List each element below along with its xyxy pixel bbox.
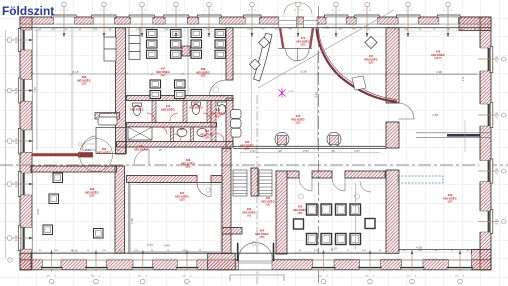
svg-text:7.45: 7.45: [33, 87, 37, 93]
conference chairs: [294, 204, 376, 245]
window bottom wall 312.8-334: [311, 254, 335, 270]
window top wall 130.6-152.8: [129, 15, 154, 28]
window bottom wall 359.7-380.4: [358, 254, 382, 270]
outer wall right: [480, 17, 491, 270]
svg-text:13: 13: [274, 27, 278, 31]
red stall door arcs: [147, 113, 224, 141]
left margin dim line: [4, 30, 7, 258]
wall V1 lower: [115, 166, 125, 253]
right marker y=171: [478, 169, 506, 175]
conference top wall c: [345, 171, 385, 178]
closet door arc: [82, 136, 96, 150]
toilet partition walls: [152, 101, 216, 142]
conference top wall b: [312, 171, 332, 178]
window bottom wall 42.4-61: [41, 254, 63, 270]
right rooms divider partition: [416, 133, 491, 138]
window top wall 53.3-74.6: [52, 15, 76, 28]
top marker x=104: [100, 2, 108, 37]
understair wall: [222, 228, 242, 235]
wc 1: [133, 103, 142, 116]
svg-text:1.98: 1.98: [130, 218, 134, 224]
interior dim lines: [32, 73, 478, 75]
top marker x=142: [138, 2, 146, 37]
svg-text:WC: WC: [180, 127, 185, 131]
room2 door arc: [197, 183, 211, 197]
office wardrobe: [129, 28, 140, 60]
office partition line: [187, 28, 189, 96]
column in circle left: [275, 132, 289, 146]
circled marker office door: [213, 87, 219, 93]
column in circle right: [327, 132, 341, 146]
hall edge seats: [231, 110, 242, 138]
H1 double-swing door circle: [80, 139, 113, 172]
conference inner chair lines: [308, 206, 358, 243]
diamond table hall right: [365, 36, 377, 48]
toilet block bottom wall: [117, 142, 234, 148]
right marker y=221.5: [478, 220, 506, 226]
top marker x=64: [60, 2, 68, 37]
conference door arcs: [299, 178, 312, 191]
top marker x=209: [205, 2, 213, 37]
right marker y=115: [478, 113, 506, 119]
conference top wall a: [287, 171, 299, 178]
exterior landing slab: [230, 275, 284, 281]
hall dim line x251: [251, 30, 253, 146]
hall diagonal sight line: [258, 10, 394, 88]
svg-text:45: 45: [352, 27, 356, 31]
svg-text:5.28: 5.28: [301, 70, 307, 74]
window top wall 398.1-418.5: [397, 15, 420, 28]
svg-text:45: 45: [331, 149, 335, 153]
svg-text:Földszint: Földszint: [2, 4, 54, 18]
window bottom wall 133-152.5: [132, 254, 155, 270]
stair left wall: [222, 148, 231, 253]
curved hall wall: [317, 29, 398, 103]
window right wall 48-71: [479, 47, 493, 73]
lobby exit double doors: [239, 243, 272, 256]
outer wall top: [20, 17, 491, 24]
window top wall 165.2-187.3: [164, 15, 189, 28]
window top wall 198.8-219.5: [197, 15, 221, 28]
shape at arc: [352, 76, 366, 90]
wc 3: [218, 102, 227, 115]
vestibule double doors: [286, 49, 310, 62]
stair flight left: [233, 170, 247, 196]
wall V4 middle: [386, 122, 399, 148]
wall V2 lower: [226, 98, 233, 147]
office pier column: [182, 46, 190, 56]
svg-text:2.57: 2.57: [354, 149, 360, 153]
door marker circles conference: [299, 194, 304, 199]
section line vertical B-B: [318, 6, 320, 284]
conference right door arc: [360, 181, 371, 192]
svg-text:45: 45: [288, 27, 292, 31]
left marker y=141: [7, 139, 33, 145]
bottom-left corner symbol: [8, 258, 12, 262]
window top wall 245.2-259.4: [244, 15, 261, 28]
room1 furniture: [43, 173, 103, 238]
vestibule left wall: [280, 28, 283, 49]
window left wall 79.4-101.4: [18, 78, 32, 103]
window right wall 160.5-181.6: [479, 159, 493, 183]
top-right corner chunk: [459, 17, 491, 31]
wall V4 lower: [386, 170, 399, 253]
room1 top wall: [31, 166, 117, 172]
outer wall left: [20, 17, 32, 270]
svg-text:4.38: 4.38: [436, 70, 442, 74]
red door frames corridor: [197, 176, 211, 183]
svg-text:45: 45: [278, 149, 282, 153]
cabinet against V1: [104, 37, 116, 61]
svg-text:2.2: 2.2: [366, 27, 371, 31]
window left wall 130-152.3: [18, 129, 32, 154]
window bottom wall 86.7-106.2: [85, 254, 108, 270]
top marker x=408: [404, 2, 412, 37]
conference left wall: [276, 171, 287, 254]
window top wall 303.6-317: [304, 17, 317, 28]
hatched wall band with shelf: [95, 113, 120, 120]
left marker y=90.5: [7, 88, 33, 94]
svg-text:2.57: 2.57: [303, 149, 309, 153]
window left wall 30-50: [18, 29, 32, 52]
bottom marker x=460: [455, 250, 465, 284]
svg-text:5.15: 5.15: [147, 243, 153, 247]
entrance canopy arch: [284, 2, 312, 13]
H1 hinge dots: [78, 142, 81, 145]
bottom marker x=142.8: [138, 250, 148, 284]
svg-text:45: 45: [224, 149, 228, 153]
bottom marker x=370: [365, 250, 375, 284]
right marker y=59: [478, 57, 506, 63]
stair flight right: [259, 170, 272, 196]
bottom wall extra chunks: [208, 253, 236, 269]
top marker x=252: [248, 2, 256, 37]
bottom marker x=51.5: [47, 250, 57, 284]
top marker x=367: [363, 2, 371, 37]
bottom marker x=96: [91, 250, 101, 284]
hall south wall lines: [233, 146, 386, 148]
reception curved desk: [254, 34, 273, 82]
wall H1 red partition: [32, 153, 79, 156]
window left wall 173-195: [18, 172, 32, 197]
svg-text:4.38: 4.38: [416, 246, 422, 250]
window bottom wall 448.4-471.5: [447, 254, 473, 270]
svg-text:45: 45: [116, 148, 120, 152]
left marker y=238: [7, 236, 33, 242]
bottom marker x=187: [182, 250, 192, 284]
svg-text:4.38: 4.38: [432, 113, 438, 117]
svg-text:5.46: 5.46: [164, 244, 170, 248]
wc 2: [192, 102, 201, 115]
wall V1 upper: [116, 28, 126, 154]
vestibule right wall: [310, 28, 313, 49]
top marker x=176: [172, 2, 180, 37]
top marker x=298: [294, 2, 302, 37]
magenta survey mark: [279, 89, 286, 98]
conference vertical dim line: [354, 183, 356, 250]
svg-text:1.25: 1.25: [323, 26, 329, 30]
svg-text:45: 45: [261, 27, 265, 31]
reception chairs: [250, 37, 270, 70]
office desks: [147, 30, 226, 99]
toilet block top wall: [127, 96, 234, 101]
office door arc: [209, 80, 226, 96]
room2 top wall: [127, 176, 198, 183]
divider extension line: [464, 120, 466, 152]
window bottom wall 401.6-422.9: [400, 254, 424, 270]
sink 1: [177, 129, 187, 137]
bottom marker x=323.4: [319, 250, 329, 284]
window right wall 211-232: [479, 210, 493, 234]
toilet entry door arc: [134, 149, 149, 164]
sink 2: [197, 129, 207, 137]
divider purple core wall: [447, 134, 480, 137]
svg-text:1.5: 1.5: [461, 77, 465, 82]
top wall inner face line: [20, 27, 491, 29]
top-right room dim line: [400, 74, 478, 76]
bench fixture: [98, 117, 117, 125]
svg-text:45: 45: [158, 148, 162, 152]
bottom marker x=412: [407, 250, 417, 284]
svg-text:45: 45: [338, 27, 342, 31]
toilet block mid wall: [127, 123, 217, 128]
section line vertical C-C: [256, 95, 258, 284]
H1 door pocket block: [78, 152, 93, 157]
room2 top wall right: [211, 176, 222, 183]
svg-text:2.57: 2.57: [85, 148, 91, 152]
wall V2 upper: [226, 28, 233, 80]
svg-text:5.15: 5.15: [73, 70, 79, 74]
wall V4 upper: [386, 28, 399, 103]
window top wall 278.8-296.5: [279, 17, 297, 28]
bottom wall inner face lines: [31, 252, 386, 254]
window left wall 227.3-249.1: [18, 226, 32, 251]
window bottom wall 177.3-196.8: [176, 254, 199, 270]
left marker y=40: [7, 38, 33, 44]
teal dashed duct: [398, 176, 443, 183]
window top wall 438.8-458.5: [437, 15, 460, 28]
window top wall 93.2-114.4: [92, 15, 116, 28]
svg-text:2.57: 2.57: [250, 149, 256, 153]
top marker x=336: [332, 2, 340, 37]
top marker x=448: [444, 2, 452, 37]
section line horizontal A-A: [0, 164, 508, 166]
svg-text:4.36: 4.36: [36, 209, 40, 215]
closet outline: [96, 128, 127, 154]
room2 outline: [129, 183, 222, 254]
window top wall 356.2-377.7: [355, 15, 380, 28]
window top wall 326-346.4: [325, 15, 348, 28]
stair mid wall: [251, 168, 258, 196]
bottom exit door opening: [239, 254, 272, 270]
shaft X-box: [128, 127, 152, 140]
svg-text:+1,35: +1,35: [288, 91, 294, 93]
door arc top-right room: [398, 103, 414, 119]
vestibule floor line: [279, 47, 313, 49]
left marker y=184: [7, 182, 33, 188]
window right wall 104-126: [479, 103, 493, 128]
outer wall bottom: [20, 260, 491, 270]
